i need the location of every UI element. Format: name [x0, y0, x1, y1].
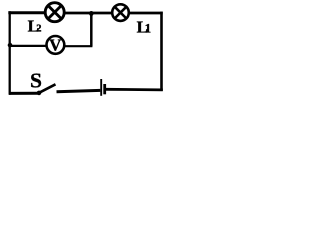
wire voltmeter branch right: [65, 45, 92, 47]
wire top-left segment: [8, 11, 45, 14]
wire top-middle segment: [64, 12, 112, 15]
wire right side: [160, 12, 163, 91]
wire bottom-left segment: [9, 92, 39, 95]
label L1: [137, 17, 152, 36]
svg-text:1: 1: [145, 20, 152, 35]
lamp L2: [45, 3, 64, 22]
label S: [30, 68, 42, 92]
node junction dot top: [89, 11, 94, 16]
battery B1 short plate: [103, 84, 106, 94]
wire top-right segment: [129, 12, 163, 15]
lamp L1: [112, 4, 129, 21]
node junction dot left: [8, 43, 13, 48]
switch S blade: [39, 84, 56, 93]
switch S hinge dot: [37, 91, 42, 96]
wire left side: [9, 11, 11, 95]
wire vertical connector: [90, 13, 93, 46]
wire bottom-right segment: [106, 88, 163, 91]
wire battery to switch: [57, 90, 101, 91]
svg-text:V: V: [49, 35, 62, 54]
wire voltmeter branch left: [10, 45, 47, 47]
battery B1 long plate: [100, 79, 102, 96]
svg-text:2: 2: [36, 24, 41, 35]
label L2: [28, 16, 42, 35]
voltmeter V: [47, 35, 65, 54]
svg-text:S: S: [30, 68, 42, 92]
